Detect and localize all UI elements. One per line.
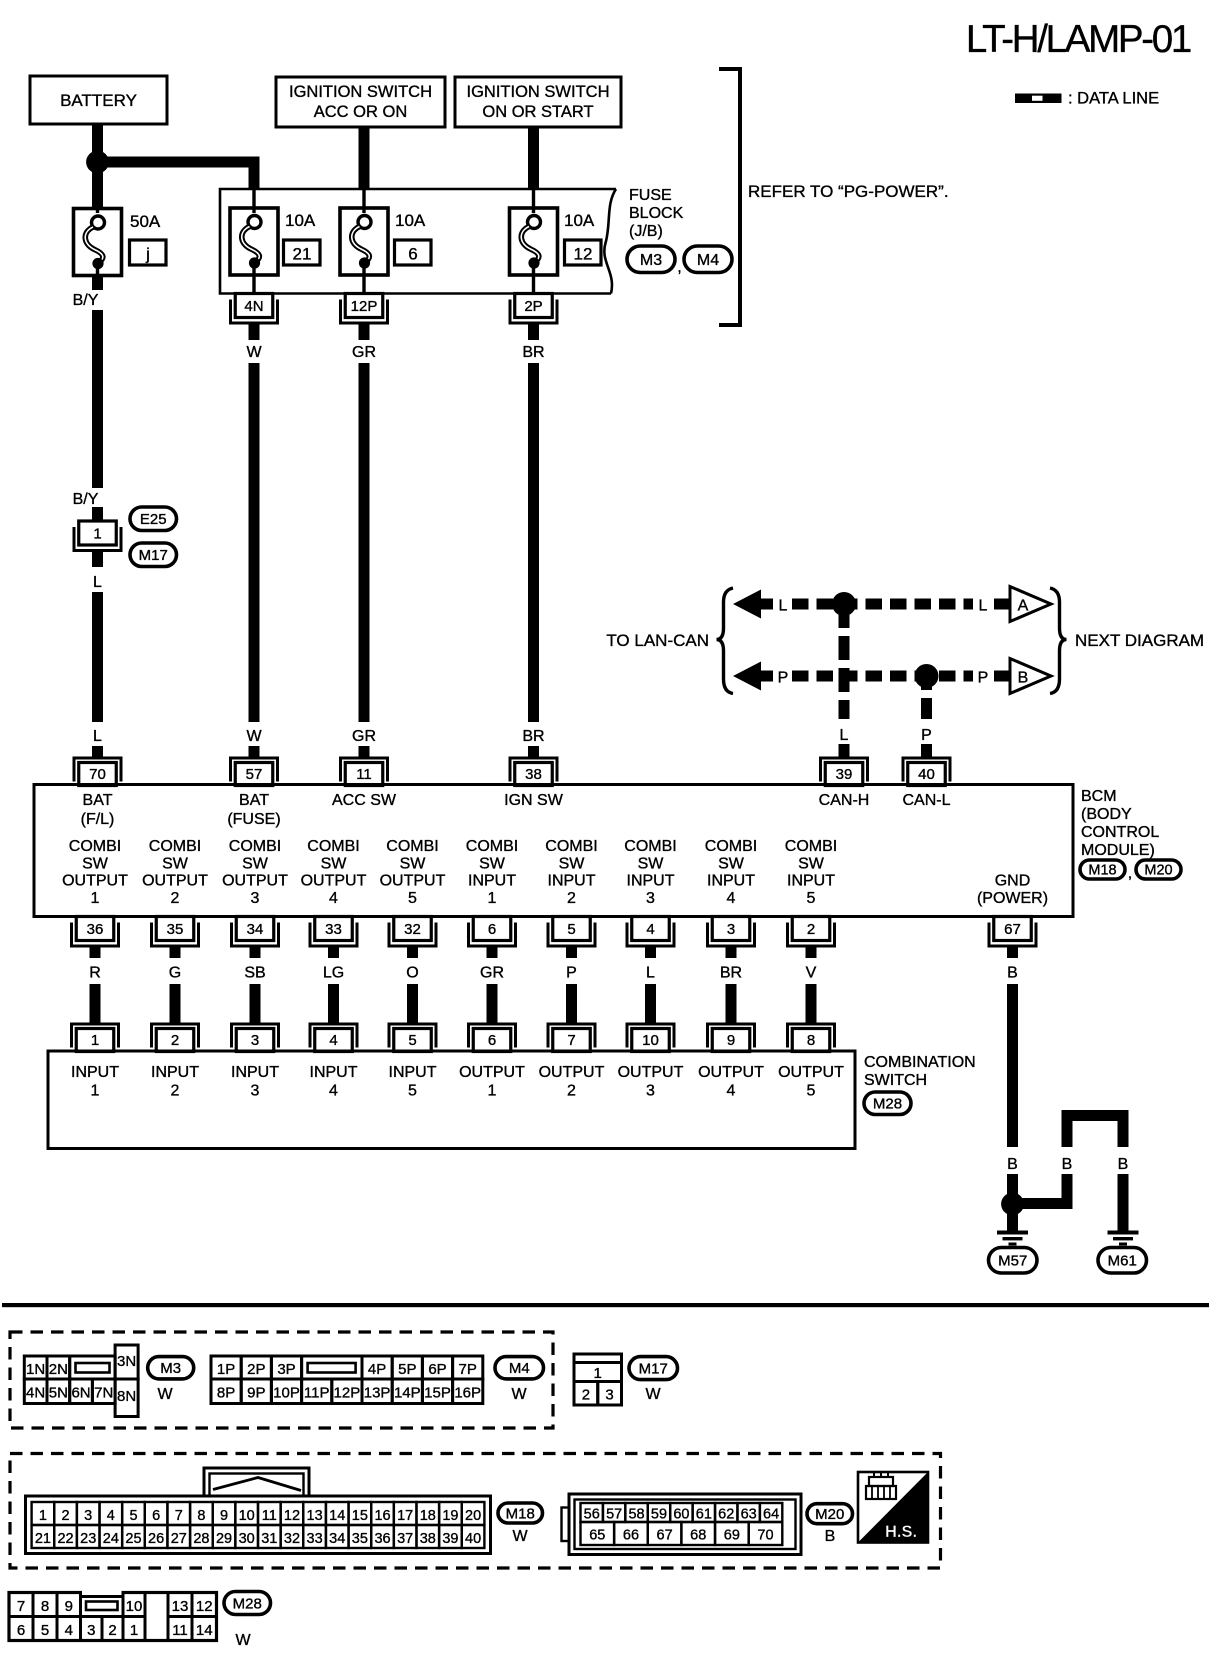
svg-text:34: 34 <box>247 921 264 938</box>
wire stub below pin 67 <box>1007 948 1018 959</box>
svg-text:B: B <box>1007 1156 1018 1173</box>
label COMBI SW OUTPUT 2 <box>142 838 208 907</box>
svg-text:12: 12 <box>574 245 593 264</box>
svg-text:10A: 10A <box>564 211 595 230</box>
left brace lan-can <box>717 588 734 694</box>
svg-text:70: 70 <box>89 766 106 783</box>
svg-text:3: 3 <box>251 890 260 907</box>
svg-text:3P: 3P <box>277 1361 295 1378</box>
svg-text:COMBI: COMBI <box>705 838 757 855</box>
fuse 12 10A <box>510 190 558 294</box>
label INPUT 4 switch <box>310 1064 358 1100</box>
svg-text:2: 2 <box>567 890 576 907</box>
pin 34 BCM bottom <box>230 917 280 948</box>
svg-text:2N: 2N <box>49 1361 68 1378</box>
bracket refer to PG-POWER <box>719 67 740 327</box>
svg-text:M61: M61 <box>1108 1253 1137 1270</box>
wire battery to fuse j <box>92 124 103 209</box>
svg-text:OUTPUT: OUTPUT <box>618 1064 684 1081</box>
svg-text:(FUSE): (FUSE) <box>227 811 280 828</box>
svg-text:14: 14 <box>196 1622 213 1639</box>
wire stub to pin 38 <box>528 746 539 757</box>
svg-text:GND: GND <box>995 873 1031 890</box>
svg-text:3: 3 <box>251 1083 260 1100</box>
pin 6 BCM bottom <box>467 917 517 948</box>
svg-text:57: 57 <box>246 766 263 783</box>
junction dot at battery feed <box>86 151 109 174</box>
connector grid M3 <box>24 1345 138 1417</box>
label INPUT 5 switch <box>389 1064 437 1100</box>
connector oval M3 bottom <box>148 1357 194 1379</box>
wire BR stub from 2P <box>528 325 539 341</box>
svg-text:40: 40 <box>465 1531 481 1547</box>
label INPUT 2 switch <box>151 1064 199 1100</box>
svg-text:36: 36 <box>87 921 104 938</box>
svg-text:11: 11 <box>172 1622 188 1639</box>
wire stub below connector <box>92 552 103 567</box>
svg-text:11: 11 <box>356 766 372 783</box>
svg-text:9: 9 <box>727 1032 735 1049</box>
svg-text:A: A <box>1018 598 1029 615</box>
connector oval M20 bcm <box>1136 860 1181 879</box>
svg-text:69: 69 <box>724 1528 740 1544</box>
wire stub below pin 3 <box>726 948 737 959</box>
svg-text:4: 4 <box>65 1622 73 1639</box>
svg-text:67: 67 <box>1004 921 1021 938</box>
connector grid M4 <box>211 1356 483 1404</box>
svg-text:L: L <box>646 965 655 982</box>
svg-text:66: 66 <box>623 1528 639 1544</box>
svg-text:4: 4 <box>727 890 736 907</box>
svg-text:3: 3 <box>646 1083 655 1100</box>
svg-text:(J/B): (J/B) <box>629 223 663 240</box>
connector grid M28 <box>9 1590 217 1641</box>
svg-text:W: W <box>246 728 262 745</box>
svg-text:SW: SW <box>321 856 348 873</box>
svg-text:14P: 14P <box>394 1385 421 1402</box>
svg-text:5: 5 <box>408 890 417 907</box>
svg-text:FUSE: FUSE <box>629 187 672 204</box>
svg-text:M17: M17 <box>639 1361 668 1378</box>
label OUTPUT 4 switch <box>698 1064 764 1100</box>
fuse block outline <box>220 189 616 294</box>
svg-text:6P: 6P <box>428 1361 446 1378</box>
svg-text:BCM: BCM <box>1081 788 1117 805</box>
svg-text:H.S.: H.S. <box>885 1523 917 1541</box>
ground symbol M57 <box>997 1231 1028 1246</box>
svg-text:16P: 16P <box>454 1385 481 1402</box>
svg-text:7: 7 <box>567 1032 575 1049</box>
pin 4N fuse block <box>229 294 279 325</box>
svg-text:18: 18 <box>420 1508 436 1524</box>
svg-text:IGNITION SWITCH: IGNITION SWITCH <box>467 83 610 101</box>
svg-text:COMBI: COMBI <box>386 838 438 855</box>
svg-text:1N: 1N <box>26 1361 45 1378</box>
pin 33 BCM bottom <box>309 917 359 948</box>
wire ACC switch to fuse block <box>359 127 370 190</box>
svg-text:7: 7 <box>175 1508 183 1524</box>
svg-text:6N: 6N <box>71 1385 90 1402</box>
svg-text:OUTPUT: OUTPUT <box>301 873 367 890</box>
label BAT (FUSE) <box>227 792 280 828</box>
svg-text:63: 63 <box>741 1507 757 1523</box>
svg-text:4: 4 <box>107 1508 115 1524</box>
svg-text:35: 35 <box>352 1531 368 1547</box>
connector oval M28 bottom <box>224 1592 271 1615</box>
svg-text:B/Y: B/Y <box>73 292 99 309</box>
svg-text:SW: SW <box>559 856 586 873</box>
svg-text:GR: GR <box>352 728 376 745</box>
svg-text:8: 8 <box>807 1032 815 1049</box>
label COMBI SW INPUT 4 <box>705 838 757 907</box>
svg-text:LG: LG <box>323 965 344 982</box>
svg-text:IGNITION SWITCH: IGNITION SWITCH <box>289 83 432 101</box>
svg-text:L: L <box>779 598 788 615</box>
svg-text:INPUT: INPUT <box>71 1064 119 1081</box>
data line P arrow <box>733 662 761 691</box>
svg-text:6: 6 <box>152 1508 160 1524</box>
wire L long <box>92 592 103 722</box>
svg-text:G: G <box>169 965 181 982</box>
svg-text:7P: 7P <box>459 1361 477 1378</box>
label OUTPUT 2 switch <box>539 1064 605 1100</box>
svg-text:4: 4 <box>727 1083 736 1100</box>
label COMBI SW OUTPUT 4 <box>301 838 367 907</box>
wire BR to switch <box>726 984 737 1023</box>
svg-text:36: 36 <box>374 1531 390 1547</box>
connector oval M4 bottom <box>495 1357 544 1379</box>
dashed box M3 M4 <box>10 1332 553 1428</box>
svg-text:5: 5 <box>567 921 575 938</box>
svg-text:14: 14 <box>329 1508 345 1524</box>
svg-text:SW: SW <box>638 856 665 873</box>
svg-text:33: 33 <box>325 921 342 938</box>
wire B/Y long <box>92 310 103 488</box>
svg-text:10A: 10A <box>395 211 426 230</box>
connector oval M18 bcm <box>1080 860 1125 879</box>
wire B to junction <box>1007 1174 1018 1203</box>
wire stub to pin 40 <box>921 744 932 757</box>
svg-text:BR: BR <box>522 728 544 745</box>
svg-text:OUTPUT: OUTPUT <box>222 873 288 890</box>
svg-text:MODULE): MODULE) <box>1081 842 1155 859</box>
pin 40 BCM <box>902 757 952 786</box>
pin 4 combination switch <box>309 1023 359 1052</box>
battery box <box>30 76 167 124</box>
svg-text:IGN SW: IGN SW <box>504 792 564 809</box>
svg-text:13P: 13P <box>364 1385 391 1402</box>
pin 8 combination switch <box>786 1023 836 1052</box>
svg-text:6: 6 <box>488 1032 496 1049</box>
svg-text:6: 6 <box>408 245 417 264</box>
svg-text:M17: M17 <box>139 547 168 564</box>
svg-text:M20: M20 <box>1144 863 1172 879</box>
svg-text:5N: 5N <box>49 1385 68 1402</box>
svg-text:R: R <box>89 965 101 982</box>
svg-text:M18: M18 <box>506 1505 535 1522</box>
svg-text:5: 5 <box>408 1032 416 1049</box>
fuse id box 6 <box>395 240 432 265</box>
svg-text:38: 38 <box>420 1531 436 1547</box>
svg-text:2P: 2P <box>524 298 542 315</box>
svg-text:INPUT: INPUT <box>231 1064 279 1081</box>
svg-text:L: L <box>979 598 988 615</box>
svg-text:8N: 8N <box>117 1388 136 1405</box>
pin 12P fuse block <box>339 294 389 325</box>
svg-text:26: 26 <box>148 1531 164 1547</box>
svg-text:P: P <box>978 670 989 687</box>
svg-text:35: 35 <box>167 921 184 938</box>
wire B right down <box>1118 1174 1129 1231</box>
svg-text:COMBI: COMBI <box>545 838 597 855</box>
wire O to switch <box>407 984 418 1023</box>
label INPUT 3 switch <box>231 1064 279 1100</box>
dashed box M18 M20 <box>10 1454 941 1569</box>
pin 35 BCM bottom <box>150 917 200 948</box>
svg-text:1P: 1P <box>217 1361 235 1378</box>
svg-text:1: 1 <box>594 1365 602 1382</box>
svg-text:SW: SW <box>479 856 506 873</box>
wire B long from pin 67 <box>1007 984 1018 1147</box>
svg-text:M4: M4 <box>697 252 719 269</box>
wire stub below pin 32 <box>407 948 418 959</box>
svg-text:10: 10 <box>126 1598 143 1615</box>
svg-text:BR: BR <box>720 965 742 982</box>
data line P to B <box>994 671 1010 682</box>
ground symbol M61 <box>1108 1231 1139 1246</box>
svg-text:B: B <box>1007 965 1018 982</box>
pin 9 combination switch <box>706 1023 756 1052</box>
legend data line symbol <box>1015 94 1062 104</box>
pin 4 BCM bottom <box>626 917 676 948</box>
data line L to A <box>994 599 1010 610</box>
data line CAN-L vertical dashed <box>921 676 932 719</box>
svg-text:2: 2 <box>108 1622 116 1639</box>
wire W stub from 4N <box>249 325 260 341</box>
svg-text:j: j <box>145 245 150 264</box>
svg-text:12P: 12P <box>334 1385 361 1402</box>
wire IGN switch to fuse block <box>528 127 539 190</box>
svg-text:CAN-H: CAN-H <box>819 792 870 809</box>
svg-text:SW: SW <box>718 856 745 873</box>
svg-text:40: 40 <box>918 766 935 783</box>
svg-text:GR: GR <box>480 965 504 982</box>
pin 6 combination switch <box>467 1023 517 1052</box>
connector oval M18 bottom <box>498 1503 543 1523</box>
label COMBI SW INPUT 1 <box>466 838 518 907</box>
wire stub below pin 5 <box>566 948 577 959</box>
svg-text:SW: SW <box>162 856 189 873</box>
svg-text:: DATA LINE: : DATA LINE <box>1068 90 1159 108</box>
svg-text:W: W <box>512 1528 528 1545</box>
svg-text:5P: 5P <box>398 1361 416 1378</box>
svg-text:(POWER): (POWER) <box>977 890 1048 907</box>
connector oval E25 <box>130 507 177 531</box>
svg-text:7N: 7N <box>94 1385 113 1402</box>
svg-text:O: O <box>406 965 418 982</box>
svg-text:INPUT: INPUT <box>310 1064 358 1081</box>
wire B/Y from fuse j <box>92 277 103 290</box>
svg-text:70: 70 <box>757 1528 773 1544</box>
connector oval M20 bottom <box>807 1504 853 1524</box>
separator line <box>2 1303 1209 1307</box>
fuse id box 21 <box>284 240 321 265</box>
data line L dashed <box>792 599 973 610</box>
svg-text:25: 25 <box>125 1531 141 1547</box>
svg-text:BLOCK: BLOCK <box>629 205 684 222</box>
wire R to switch <box>90 984 101 1023</box>
svg-text:B/Y: B/Y <box>73 491 99 508</box>
svg-text:INPUT: INPUT <box>151 1064 199 1081</box>
svg-text:12: 12 <box>196 1598 213 1615</box>
svg-text:9P: 9P <box>247 1385 265 1402</box>
svg-text:W: W <box>157 1386 173 1403</box>
svg-text:CAN-L: CAN-L <box>902 792 950 809</box>
svg-text:INPUT: INPUT <box>627 873 675 890</box>
svg-text:1: 1 <box>488 890 497 907</box>
connector grid M17 <box>574 1354 622 1405</box>
svg-text:P: P <box>566 965 577 982</box>
svg-text:34: 34 <box>329 1531 345 1547</box>
inline connector E25/M17 pin 1 <box>73 521 123 552</box>
svg-text:5: 5 <box>408 1083 417 1100</box>
wire stub to pin 70 <box>92 746 103 757</box>
label COMBI SW INPUT 2 <box>545 838 597 907</box>
svg-text:28: 28 <box>193 1531 209 1547</box>
svg-text:INPUT: INPUT <box>787 873 835 890</box>
svg-text:4: 4 <box>646 921 654 938</box>
svg-text:2: 2 <box>171 1083 180 1100</box>
wire GR long <box>359 363 370 722</box>
fusible link j 50A <box>74 200 122 277</box>
svg-text:M28: M28 <box>233 1595 262 1612</box>
svg-text:COMBI: COMBI <box>785 838 837 855</box>
svg-text:62: 62 <box>718 1507 734 1523</box>
svg-text:29: 29 <box>216 1531 232 1547</box>
svg-text:GR: GR <box>352 344 376 361</box>
svg-text:L: L <box>93 574 102 591</box>
wire V to switch <box>806 984 817 1023</box>
svg-text:M28: M28 <box>873 1096 902 1113</box>
svg-text:INPUT: INPUT <box>707 873 755 890</box>
wire stub below pin 33 <box>328 948 339 959</box>
svg-text:39: 39 <box>836 766 853 783</box>
svg-text:60: 60 <box>673 1507 689 1523</box>
svg-text:1: 1 <box>91 1083 100 1100</box>
svg-text:L: L <box>840 727 849 744</box>
pin 7 combination switch <box>547 1023 597 1052</box>
svg-text:12P: 12P <box>351 298 378 315</box>
svg-text:4: 4 <box>329 1083 338 1100</box>
wire GR stub from 12P <box>359 325 370 341</box>
svg-text:56: 56 <box>584 1507 600 1523</box>
connector M18 key <box>204 1468 309 1496</box>
pin 3 BCM bottom <box>706 917 756 948</box>
svg-text:BAT: BAT <box>83 792 113 809</box>
svg-text:2: 2 <box>171 1032 179 1049</box>
svg-text:10A: 10A <box>285 211 316 230</box>
wire P to switch <box>566 984 577 1023</box>
pin 36 BCM bottom <box>70 917 120 948</box>
right brace next diagram <box>1050 588 1067 694</box>
svg-text:BATTERY: BATTERY <box>60 91 137 110</box>
svg-text:1: 1 <box>39 1508 47 1524</box>
svg-text:L: L <box>93 728 102 745</box>
combination switch box <box>48 1051 855 1149</box>
svg-text:SB: SB <box>244 965 265 982</box>
connector oval M4 fuse block <box>684 246 732 273</box>
svg-text:64: 64 <box>763 1507 779 1523</box>
data line P dashed <box>792 671 973 682</box>
svg-text:COMBI: COMBI <box>307 838 359 855</box>
svg-text:OUTPUT: OUTPUT <box>698 1064 764 1081</box>
ignition switch ACC OR ON box <box>276 77 445 127</box>
svg-text:4: 4 <box>329 890 338 907</box>
svg-text:M20: M20 <box>815 1506 844 1523</box>
svg-text:24: 24 <box>103 1531 119 1547</box>
fuse 6 10A <box>340 190 388 294</box>
svg-text:NEXT DIAGRAM: NEXT DIAGRAM <box>1075 631 1204 650</box>
pin 2P fuse block <box>509 294 559 325</box>
svg-text:P: P <box>921 727 932 744</box>
svg-text:V: V <box>806 965 817 982</box>
svg-text:3: 3 <box>251 1032 259 1049</box>
svg-text:M3: M3 <box>160 1360 181 1377</box>
wire junction to fuse 21 branch <box>98 157 260 191</box>
wire BR long <box>528 363 539 722</box>
svg-text:SW: SW <box>400 856 427 873</box>
svg-text:3N: 3N <box>117 1353 136 1370</box>
wire stub below pin 36 <box>90 948 101 959</box>
svg-text:21: 21 <box>293 245 312 264</box>
svg-text:INPUT: INPUT <box>548 873 596 890</box>
svg-text:P: P <box>778 670 789 687</box>
svg-text:COMBI: COMBI <box>466 838 518 855</box>
svg-text:57: 57 <box>606 1507 622 1523</box>
svg-text:3: 3 <box>646 890 655 907</box>
svg-text:,: , <box>677 259 681 276</box>
svg-text:33: 33 <box>307 1531 323 1547</box>
label BCM (BODY CONTROL MODULE) <box>1081 788 1159 859</box>
svg-text:5: 5 <box>129 1508 137 1524</box>
label GND (POWER) <box>977 873 1048 908</box>
fuse block label FUSE BLOCK (J/B) <box>629 187 684 240</box>
connector grid M18 <box>26 1496 491 1554</box>
label INPUT 1 switch <box>71 1064 119 1100</box>
svg-text:2P: 2P <box>247 1361 265 1378</box>
svg-text:W: W <box>511 1386 527 1403</box>
data line L arrow <box>733 590 761 619</box>
fuse id box j <box>130 240 167 265</box>
junction dot CAN-H <box>832 592 856 616</box>
fuse 21 10A <box>230 190 278 294</box>
svg-text:7: 7 <box>17 1598 25 1615</box>
svg-text:COMBI: COMBI <box>149 838 201 855</box>
pin 39 BCM <box>819 757 869 786</box>
pin 5 combination switch <box>388 1023 438 1052</box>
pin 3 combination switch <box>230 1023 280 1052</box>
svg-text:3: 3 <box>727 921 735 938</box>
svg-text:15: 15 <box>352 1508 368 1524</box>
svg-text:22: 22 <box>57 1531 73 1547</box>
svg-text:COMBINATION: COMBINATION <box>864 1054 976 1071</box>
wire W long <box>249 363 260 722</box>
svg-text:31: 31 <box>261 1531 277 1547</box>
svg-text:2: 2 <box>567 1083 576 1100</box>
wire stub below pin 2 <box>806 948 817 959</box>
connector oval M61 <box>1098 1248 1147 1274</box>
svg-text:SW: SW <box>242 856 269 873</box>
